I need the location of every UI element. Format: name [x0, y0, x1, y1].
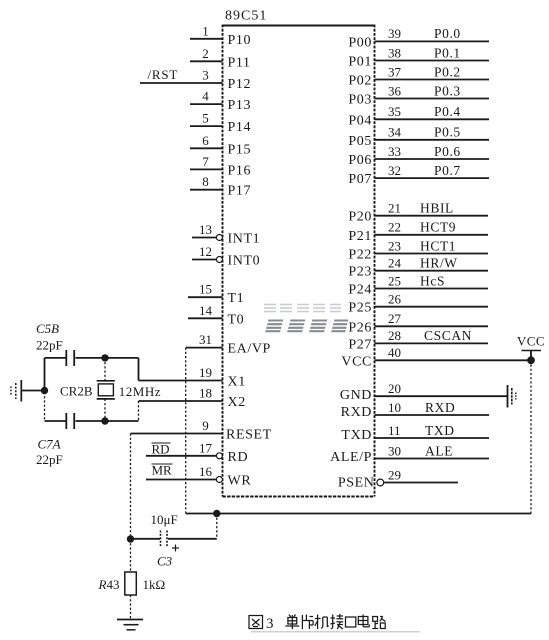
pin 16 inversion bubble — [216, 477, 222, 483]
svg-text:33: 33 — [388, 144, 401, 159]
svg-text:P17: P17 — [228, 184, 252, 199]
C3 polarity plus — [172, 545, 179, 552]
pin 16 WR stub wire — [146, 479, 217, 481]
svg-text:P00: P00 — [348, 35, 372, 50]
svg-text:5: 5 — [202, 111, 209, 126]
pin 36 number — [388, 83, 402, 98]
wire C3 left — [131, 538, 161, 540]
pin label GND — [340, 388, 372, 403]
pin 7 P16 stub wire — [190, 168, 223, 170]
svg-text:35: 35 — [388, 104, 401, 119]
label R43 — [98, 577, 120, 592]
power VCC symbol — [517, 334, 545, 361]
svg-text:P0.7: P0.7 — [434, 163, 461, 178]
pin 13 inversion bubble — [216, 235, 222, 241]
capacitor C3 plates — [161, 531, 168, 548]
svg-text:P0.1: P0.1 — [434, 45, 461, 60]
pin 29 inversion bubble — [377, 479, 384, 486]
pin 13 INT1 stub wire — [192, 237, 217, 239]
IC U1 89C51 body — [223, 25, 375, 497]
pin label PSEN — [338, 476, 375, 491]
svg-text:HCT1: HCT1 — [420, 238, 456, 253]
pin label P27 — [348, 337, 372, 352]
svg-text:24: 24 — [388, 256, 402, 271]
net label RXD — [425, 400, 455, 415]
svg-text:INT0: INT0 — [228, 254, 261, 269]
svg-text:VCC: VCC — [341, 354, 372, 369]
svg-text:4: 4 — [202, 89, 209, 104]
pin 22 number — [388, 220, 401, 235]
label CR2B — [60, 384, 93, 399]
label C5B — [36, 321, 59, 336]
svg-text:P16: P16 — [228, 163, 252, 178]
pin 28 number — [388, 328, 401, 343]
svg-text:P14: P14 — [228, 120, 252, 135]
net label P0.5 — [434, 125, 461, 140]
pin label P06 — [348, 153, 372, 168]
pin 5 P14 stub wire — [190, 125, 223, 127]
svg-text:P0.6: P0.6 — [434, 144, 461, 159]
pin label P00 — [348, 35, 372, 50]
pin 36 P0.3 stub wire — [375, 98, 490, 100]
svg-text:C5B: C5B — [36, 321, 59, 336]
net label /RST — [148, 67, 179, 82]
svg-text:WR: WR — [228, 474, 252, 489]
svg-text:12MHz: 12MHz — [119, 384, 161, 399]
pin label P07 — [348, 172, 372, 187]
pin label P12 — [228, 77, 252, 92]
value 1kOhm — [143, 577, 166, 592]
svg-text:34: 34 — [388, 125, 402, 140]
svg-text:C3: C3 — [157, 554, 173, 569]
pin 39 P0.0 stub wire — [375, 40, 490, 42]
pin 6 P15 stub wire — [190, 147, 223, 149]
svg-text:1: 1 — [202, 23, 209, 38]
svg-text:P27: P27 — [348, 337, 372, 352]
pin label P21 — [348, 229, 372, 244]
svg-text:P0.5: P0.5 — [434, 125, 461, 140]
ground symbol bottom (R43) — [117, 620, 143, 630]
svg-text:22pF: 22pF — [36, 452, 63, 467]
pin label INT1 — [228, 232, 261, 247]
pin 24 net HR/W stub wire — [375, 270, 489, 272]
svg-text:VCC: VCC — [517, 334, 545, 349]
net label P0.1 — [434, 45, 461, 60]
svg-text:HBIL: HBIL — [420, 201, 454, 216]
pin 12 inversion bubble — [216, 257, 222, 263]
pin 27 number — [388, 311, 402, 326]
resistor R43 — [125, 572, 137, 595]
watermark row 1 (light gray) — [264, 305, 341, 312]
svg-text:P25: P25 — [348, 301, 372, 316]
pin 26 P2 stub wire — [375, 306, 489, 308]
svg-text:HCT9: HCT9 — [420, 220, 456, 235]
svg-text:P10: P10 — [228, 33, 252, 48]
pin 4 number — [202, 89, 209, 104]
pin 3 number — [202, 68, 209, 83]
pin label P17 — [228, 184, 252, 199]
pin 19 X1 stub wire — [139, 380, 223, 382]
pin 12 number — [199, 244, 212, 259]
pin label P01 — [348, 55, 372, 70]
wire VCC to EA/VP horizontal — [186, 513, 531, 515]
pin 33 P0.6 stub wire — [375, 158, 490, 160]
pin 9 number — [202, 418, 209, 433]
pin 34 number — [388, 125, 402, 140]
pin label P24 — [348, 283, 372, 298]
crystal CR2B symbol — [97, 381, 115, 399]
left capacitor rail wire — [44, 358, 46, 421]
pin 20 number — [388, 381, 401, 396]
svg-text:9: 9 — [202, 418, 209, 433]
pin 28 net CSCAN stub wire — [375, 342, 489, 344]
net label HBIL — [420, 201, 454, 216]
svg-text:36: 36 — [388, 83, 402, 98]
net label P0.3 — [434, 83, 461, 98]
pin 38 number — [388, 45, 401, 60]
ground symbol right (pin 20) — [508, 385, 516, 408]
pin 25 number — [388, 273, 401, 288]
watermark row 2 (gray) — [265, 321, 348, 332]
wire VCC rail down — [530, 360, 532, 513]
capacitor C7A plates — [66, 413, 74, 429]
junction RESET-C3-R43 — [127, 535, 134, 542]
svg-text:P0.4: P0.4 — [434, 104, 461, 119]
pin label P25 — [348, 301, 372, 316]
junction bottom node crystal — [101, 417, 108, 424]
pin label P26 — [348, 320, 372, 335]
junction rail-ground — [41, 387, 48, 394]
pin 4 P13 stub wire — [190, 103, 223, 105]
pin 17 inversion bubble — [216, 453, 222, 459]
pin label VCC — [341, 354, 372, 369]
pin 2 number — [202, 46, 209, 61]
svg-text:12: 12 — [199, 244, 212, 259]
pin 25 net HcS stub wire — [375, 288, 489, 290]
pin 14 number — [199, 303, 213, 318]
net label HCT9 — [420, 220, 456, 235]
pin label T0 — [228, 312, 245, 327]
net XTAL2 bottom wire — [45, 401, 139, 421]
junction top node crystal — [101, 354, 108, 361]
svg-text:P06: P06 — [348, 153, 372, 168]
pin 39 number — [388, 26, 401, 41]
svg-text:PSEN: PSEN — [338, 476, 375, 491]
pin 16 number — [199, 464, 213, 479]
pin 5 number — [202, 111, 209, 126]
svg-text:RD: RD — [228, 450, 249, 465]
svg-text:/RST: /RST — [148, 67, 179, 82]
value 22pF (C7A) — [36, 452, 63, 467]
wire R43 top lead — [130, 539, 132, 572]
pin label P14 — [228, 120, 252, 135]
svg-text:P20: P20 — [348, 210, 372, 225]
pin 37 number — [388, 64, 402, 79]
pin label RD — [228, 450, 249, 465]
svg-text:RXD: RXD — [341, 405, 372, 420]
pin 15 number — [199, 282, 212, 297]
svg-text:22: 22 — [388, 220, 401, 235]
net label CSCAN — [424, 328, 472, 343]
label RD external (overline) — [152, 442, 171, 457]
pin 40 VCC stub wire to VCC rail — [375, 359, 532, 361]
pin label P13 — [228, 98, 252, 113]
pin 34 P0.5 stub wire — [375, 139, 490, 141]
svg-text:31: 31 — [199, 332, 212, 347]
svg-text:P15: P15 — [228, 142, 252, 157]
net label HcS — [420, 273, 445, 288]
pin label RESET — [226, 428, 272, 443]
pin label RXD — [341, 405, 372, 420]
pin 14 T0 stub wire — [188, 317, 223, 319]
pin 23 net HCT1 stub wire — [375, 253, 489, 255]
svg-text:17: 17 — [199, 440, 213, 455]
junction C3-VCC line — [213, 510, 220, 517]
svg-text:40: 40 — [388, 345, 401, 360]
svg-text:CR2B: CR2B — [60, 384, 93, 399]
svg-text:6: 6 — [202, 133, 209, 148]
pin label X2 — [228, 395, 246, 410]
caption: figure 3 MCU interface circuit (CJK glyphs drawn as strokes) — [249, 614, 385, 629]
pin 26 number — [388, 292, 402, 307]
pin label WR — [228, 474, 252, 489]
svg-text:ALE/P: ALE/P — [330, 450, 372, 465]
svg-text:20: 20 — [388, 381, 401, 396]
pin 37 P0.2 stub wire — [375, 79, 490, 81]
svg-text:22pF: 22pF — [36, 338, 63, 353]
caption digit 3 — [266, 616, 274, 632]
pin 21 net HBIL stub wire — [375, 215, 489, 217]
pin 20 GND stub wire — [375, 395, 508, 397]
svg-text:26: 26 — [388, 292, 402, 307]
svg-text:38: 38 — [388, 45, 401, 60]
pin 22 net HCT9 stub wire — [375, 234, 489, 236]
pin label P05 — [348, 134, 372, 149]
svg-text:P04: P04 — [348, 113, 372, 128]
net label P0.6 — [434, 144, 461, 159]
svg-text:2: 2 — [202, 46, 209, 61]
pin label P16 — [228, 163, 252, 178]
svg-text:P05: P05 — [348, 134, 372, 149]
net label ALE — [425, 443, 453, 458]
pin 19 number — [199, 365, 212, 380]
net label P0.2 — [434, 64, 461, 79]
net label P0.0 — [434, 26, 461, 41]
label C7A — [38, 437, 61, 452]
pin 30 number — [388, 443, 401, 458]
svg-text:P13: P13 — [228, 98, 252, 113]
pin label P23 — [348, 265, 372, 280]
pin label P22 — [348, 248, 372, 263]
svg-text:11: 11 — [388, 423, 401, 438]
pin 15 T1 stub wire — [188, 296, 223, 298]
pin label P15 — [228, 142, 252, 157]
svg-text:T1: T1 — [228, 291, 245, 306]
svg-text:39: 39 — [388, 26, 401, 41]
svg-text:18: 18 — [199, 386, 212, 401]
pin 1 P10 stub wire — [190, 38, 223, 40]
pin 18 number — [199, 386, 212, 401]
svg-text:P23: P23 — [348, 265, 372, 280]
pin 2 P11 stub wire — [190, 60, 223, 62]
svg-text:14: 14 — [199, 303, 213, 318]
pin 32 P0.7 stub wire — [375, 177, 490, 179]
wire EA/VP vertical — [185, 348, 187, 514]
pin 33 number — [388, 144, 401, 159]
wire C3 right — [168, 538, 217, 540]
pin 29 PSEN stub wire — [384, 482, 458, 484]
pin label INT0 — [228, 254, 261, 269]
svg-text:P03: P03 — [348, 93, 372, 108]
svg-text:P07: P07 — [348, 172, 372, 187]
pin label P02 — [348, 74, 372, 89]
svg-text:T0: T0 — [228, 312, 245, 327]
pin 31 EA/VP stub wire — [186, 347, 223, 349]
pin 17 RD stub wire — [146, 455, 217, 457]
net XTAL1 top wire — [45, 358, 139, 381]
svg-text:28: 28 — [388, 328, 401, 343]
svg-text:P24: P24 — [348, 283, 372, 298]
svg-text:8: 8 — [202, 174, 209, 189]
caption underline (scan artifact) — [251, 631, 420, 633]
svg-text:3: 3 — [266, 616, 274, 632]
value 12MHz — [119, 384, 161, 399]
svg-text:P01: P01 — [348, 55, 372, 70]
pin 8 number — [202, 174, 209, 189]
svg-text:P12: P12 — [228, 77, 252, 92]
pin label X1 — [228, 375, 246, 390]
net label P0.4 — [434, 104, 461, 119]
net label HCT1 — [420, 238, 456, 253]
svg-text:RESET: RESET — [226, 428, 272, 443]
svg-text:P02: P02 — [348, 74, 372, 89]
svg-text:P0.3: P0.3 — [434, 83, 461, 98]
pin 11 net TXD stub wire — [375, 437, 490, 439]
svg-text:10: 10 — [388, 400, 401, 415]
svg-text:TXD: TXD — [425, 423, 455, 438]
pin 13 number — [199, 222, 212, 237]
pin 10 net RXD stub wire — [375, 414, 490, 416]
svg-text:27: 27 — [388, 311, 402, 326]
svg-text:X1: X1 — [228, 375, 246, 390]
label C3 — [157, 554, 173, 569]
svg-text:89C51: 89C51 — [225, 9, 267, 24]
net label HR/W — [420, 256, 458, 271]
value 10uF — [151, 512, 178, 527]
svg-text:RD: RD — [152, 442, 170, 457]
pin 21 number — [388, 201, 401, 216]
pin 32 number — [388, 163, 401, 178]
pin 3 P12 stub wire — [140, 82, 223, 84]
svg-text:16: 16 — [199, 464, 213, 479]
svg-text:P11: P11 — [228, 55, 251, 70]
pin 29 number — [388, 467, 401, 482]
pin 27 P2 stub wire — [375, 325, 489, 327]
pin 17 number — [199, 440, 213, 455]
svg-text:P26: P26 — [348, 320, 372, 335]
pin label P11 — [228, 55, 251, 70]
svg-text:29: 29 — [388, 467, 401, 482]
pin 35 P0.4 stub wire — [375, 118, 490, 120]
pin 9 RESET stub wire — [131, 433, 223, 435]
pin 11 number — [388, 423, 401, 438]
svg-text:30: 30 — [388, 443, 401, 458]
svg-text:23: 23 — [388, 238, 401, 253]
label MR external (overline) — [152, 463, 173, 478]
junction VCC pin40 — [527, 356, 535, 364]
svg-text:RXD: RXD — [425, 400, 455, 415]
pin 12 INT0 stub wire — [192, 259, 217, 261]
svg-text:CSCAN: CSCAN — [424, 328, 472, 343]
svg-text:32: 32 — [388, 163, 401, 178]
pin label P04 — [348, 113, 372, 128]
crystal CR2B leads — [104, 358, 106, 421]
svg-text:7: 7 — [202, 154, 209, 169]
wire rail to ground — [22, 390, 45, 392]
pin label ALE/P — [330, 450, 372, 465]
svg-text:TXD: TXD — [341, 428, 372, 443]
svg-text:INT1: INT1 — [228, 232, 261, 247]
net label TXD — [425, 423, 455, 438]
pin 6 number — [202, 133, 209, 148]
pin 23 number — [388, 238, 401, 253]
pin label T1 — [228, 291, 245, 306]
svg-text:HR/W: HR/W — [420, 256, 458, 271]
pin 30 net ALE stub wire — [375, 458, 490, 460]
pin label TXD — [341, 428, 372, 443]
pin label P10 — [228, 33, 252, 48]
pin 18 X2 stub wire — [139, 400, 223, 402]
svg-text:15: 15 — [199, 282, 212, 297]
svg-text:X2: X2 — [228, 395, 246, 410]
svg-text:19: 19 — [199, 365, 212, 380]
pin 40 number — [388, 345, 401, 360]
pin 24 number — [388, 256, 402, 271]
svg-text:MR: MR — [152, 463, 173, 478]
wire R43 bottom lead — [130, 595, 132, 620]
pin 8 P17 stub wire — [190, 189, 223, 191]
svg-text:GND: GND — [340, 388, 372, 403]
svg-text:C7A: C7A — [38, 437, 61, 452]
wire C3 to VCC line — [216, 514, 218, 539]
pin 31 number — [199, 332, 212, 347]
pin label EA/VP — [228, 342, 271, 357]
svg-text:P21: P21 — [348, 229, 372, 244]
pin 38 P0.1 stub wire — [375, 60, 490, 62]
svg-text:HcS: HcS — [420, 273, 445, 288]
pin label P03 — [348, 93, 372, 108]
svg-text:ALE: ALE — [425, 443, 453, 458]
svg-text:P22: P22 — [348, 248, 372, 263]
wire RESET vertical — [130, 434, 132, 540]
svg-text:37: 37 — [388, 64, 402, 79]
capacitor C5B plates — [66, 350, 74, 366]
svg-text:R43: R43 — [98, 577, 120, 592]
value 22pF (C5B) — [36, 338, 63, 353]
pin label P20 — [348, 210, 372, 225]
pin 35 number — [388, 104, 401, 119]
pin 7 number — [202, 154, 209, 169]
pin 10 number — [388, 400, 401, 415]
net label P0.7 — [434, 163, 461, 178]
ground symbol left (crystal) — [11, 380, 21, 402]
svg-text:EA/VP: EA/VP — [228, 342, 271, 357]
IC U1 label 89C51 — [225, 9, 267, 24]
svg-text:P0.0: P0.0 — [434, 26, 461, 41]
svg-text:21: 21 — [388, 201, 401, 216]
svg-text:10μF: 10μF — [151, 512, 178, 527]
svg-text:3: 3 — [202, 68, 209, 83]
